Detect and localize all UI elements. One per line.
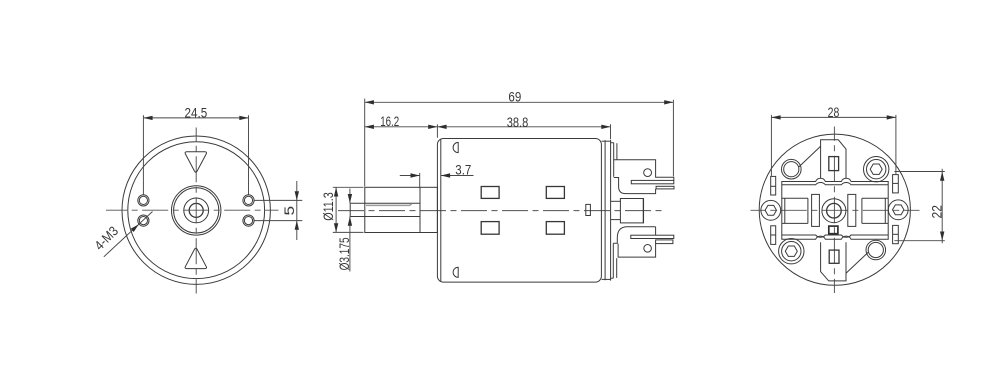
screw top-right hex <box>864 157 889 182</box>
endbell ridge upper <box>613 143 615 177</box>
front bushing collar <box>365 187 438 232</box>
chamfer edge top-left <box>799 146 821 167</box>
boss top stub <box>611 200 621 202</box>
side horizontal centerline <box>338 210 664 212</box>
svg-text:4-M3: 4-M3 <box>91 223 121 253</box>
motor body outline <box>437 139 601 283</box>
svg-text:Ø3.175: Ø3.175 <box>337 237 352 270</box>
dimension 24.5 <box>143 105 248 194</box>
dimension 69 <box>365 90 674 187</box>
boss right edge thick <box>642 199 644 223</box>
dimension 3.7 <box>400 163 474 187</box>
endcap flange line 1 <box>604 140 606 280</box>
body left inner line <box>440 139 442 281</box>
brush window below hub <box>829 226 838 234</box>
brush holder left <box>812 194 820 226</box>
brush window rect <box>586 204 591 215</box>
svg-text:69: 69 <box>508 90 521 105</box>
bottom terminal tower <box>613 227 655 257</box>
top vent triangle <box>185 152 206 172</box>
brush holder right <box>848 194 856 226</box>
svg-text:3.7: 3.7 <box>455 163 471 178</box>
dimension 22 <box>894 169 944 243</box>
shaft tip edge <box>349 203 351 216</box>
bottom terminal prong upper <box>631 235 674 238</box>
dimension dia 11.3 <box>321 187 364 232</box>
front horizontal centerline <box>106 209 279 211</box>
ridge bottom connector <box>611 277 614 279</box>
top D-notch <box>453 142 458 152</box>
shaft bottom line <box>350 216 420 218</box>
top terminal tower <box>614 160 674 194</box>
front shaft circle <box>189 203 203 217</box>
shaft top line <box>350 202 420 204</box>
center hub outer <box>822 199 846 223</box>
vent hole bottom-right <box>546 222 564 235</box>
card edge rect right-bottom <box>893 225 899 243</box>
mounting hole upper-left <box>138 195 149 206</box>
svg-text:5: 5 <box>282 206 297 216</box>
svg-text:24.5: 24.5 <box>185 105 208 120</box>
flange top connector <box>602 140 611 142</box>
top tab vent <box>829 157 839 171</box>
bottom D-notch <box>453 267 458 277</box>
top tab <box>821 140 846 179</box>
rear horizontal centerline <box>751 209 920 211</box>
mounting hole upper-right <box>243 195 254 206</box>
endcap flange line 2 <box>610 140 612 281</box>
mounting hole lower-right <box>243 215 254 226</box>
dimension 28 <box>771 105 896 176</box>
top terminal prong upper <box>631 180 674 183</box>
brush card band inner top line <box>782 183 888 185</box>
front boss outer circle <box>172 186 221 235</box>
vent hole bottom-left <box>481 222 499 235</box>
brush card band outer <box>782 178 888 239</box>
front boss ring circle <box>174 188 219 233</box>
bottom terminal hole <box>644 245 652 253</box>
band inner verticals <box>785 198 886 223</box>
label 4-M3 leader <box>91 212 152 257</box>
left hex housing <box>761 200 781 220</box>
ridge top connector <box>611 142 614 144</box>
band inner line upper <box>782 197 888 199</box>
front outer circle <box>122 136 270 284</box>
center hub shaft <box>827 203 842 218</box>
svg-text:28: 28 <box>828 105 840 120</box>
bottom terminal prong lower <box>656 240 673 244</box>
front vertical centerline <box>195 128 197 294</box>
endbell ridge upper inner <box>616 143 618 160</box>
bottom tab <box>821 242 846 281</box>
dimension 5 <box>255 181 303 240</box>
shaft flat line <box>366 204 412 206</box>
bottom vent triangle <box>185 248 206 268</box>
collar step line <box>419 187 421 232</box>
brush card band inner bottom line <box>782 235 888 237</box>
vent hole top-left <box>481 187 499 199</box>
card edge rect left-bottom <box>771 226 776 245</box>
card edge rect left-top <box>771 176 776 195</box>
svg-text:38.8: 38.8 <box>507 115 529 130</box>
top terminal hole <box>644 169 652 177</box>
vent hole top-right <box>546 187 564 199</box>
dimension dia 3.175 <box>337 189 352 272</box>
mounting hole lower-left <box>138 215 149 226</box>
front inner rim circle <box>128 142 265 279</box>
top terminal prong lower <box>656 186 674 189</box>
screw bottom-left hex <box>779 239 804 264</box>
screw bottom-right plain <box>866 240 886 260</box>
bottom tab vent <box>829 250 839 263</box>
endbell ridge lower <box>612 243 614 278</box>
dimension 16.2 <box>365 114 438 138</box>
front bearing circle <box>184 198 209 223</box>
band inner line lower <box>782 222 888 224</box>
rear bearing boss <box>620 199 643 223</box>
right hex housing <box>888 200 908 220</box>
chamfer edge bottom-right <box>846 252 868 273</box>
card edge rect right-top <box>893 175 899 193</box>
rear vertical centerline <box>833 127 835 294</box>
rear outer circle <box>759 134 910 285</box>
svg-text:22: 22 <box>929 205 944 219</box>
flange bottom connector <box>602 278 611 280</box>
screw top-left plain <box>782 159 802 179</box>
endbell ridge lower inner <box>616 258 618 278</box>
svg-text:16.2: 16.2 <box>380 114 399 129</box>
svg-text:Ø11.3: Ø11.3 <box>321 192 336 221</box>
dimension 38.8 <box>437 115 610 139</box>
boss bottom stub <box>611 219 621 221</box>
